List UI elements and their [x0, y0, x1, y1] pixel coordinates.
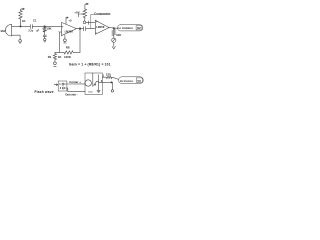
- svg-text:Mic: Mic: [1, 29, 6, 33]
- svg-text:1: 1: [59, 82, 61, 86]
- svg-text:R1: R1: [48, 55, 52, 59]
- svg-text:Arduino: Arduino: [120, 79, 134, 83]
- svg-text:+5V: +5V: [74, 11, 79, 15]
- svg-text:C1: C1: [33, 19, 37, 23]
- svg-text:2: 2: [60, 86, 62, 90]
- svg-text:LM358: LM358: [65, 29, 74, 33]
- svg-text:-: -: [58, 29, 59, 33]
- svg-text:2.2u: 2.2u: [28, 30, 33, 33]
- svg-text:Comparator: Comparator: [94, 12, 111, 16]
- svg-text:0.1u: 0.1u: [88, 92, 93, 94]
- svg-text:-: -: [96, 31, 97, 35]
- svg-text:R8: R8: [66, 46, 70, 50]
- svg-text:to Arduino: to Arduino: [118, 26, 133, 30]
- svg-text:5V: 5V: [137, 79, 141, 83]
- svg-text:1K: 1K: [22, 19, 26, 23]
- svg-text:LM358: LM358: [96, 25, 105, 29]
- svg-text:10K: 10K: [116, 33, 121, 37]
- svg-text:1K: 1K: [58, 55, 63, 59]
- svg-text:100K: 100K: [64, 55, 72, 59]
- svg-text:+: +: [62, 24, 64, 28]
- svg-text:270: 270: [106, 72, 111, 76]
- svg-text:Outside -: Outside -: [65, 93, 78, 97]
- svg-text:+5: +5: [68, 18, 72, 22]
- svg-text:Center +: Center +: [69, 80, 81, 84]
- svg-text:uF: uF: [36, 29, 39, 32]
- svg-text:Gain = 1 + (R8/R1) = 101: Gain = 1 + (R8/R1) = 101: [69, 63, 111, 67]
- svg-text:10K: 10K: [46, 26, 51, 30]
- svg-text:Flash wave: Flash wave: [35, 90, 54, 94]
- svg-text:+: +: [96, 20, 98, 24]
- svg-text:D2: D2: [137, 26, 141, 30]
